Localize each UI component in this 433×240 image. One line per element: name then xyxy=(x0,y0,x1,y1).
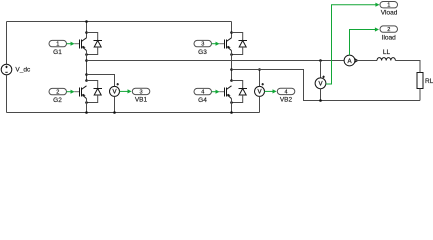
voltmeter Vload xyxy=(315,76,326,89)
wire bottom rail xyxy=(7,112,260,114)
svg-text:G1: G1 xyxy=(53,49,62,56)
wire VB2 top branch xyxy=(259,70,261,87)
wire D1 bottom branch xyxy=(87,47,98,55)
junction D4 anode branch xyxy=(230,79,233,82)
wire leg2 mid xyxy=(231,51,233,81)
wire D3 bottom branch xyxy=(232,47,243,55)
output port Iload xyxy=(380,26,398,32)
diode D3 xyxy=(239,41,248,48)
signal wire G3 xyxy=(212,42,220,46)
wire VB2 bottom branch xyxy=(259,96,261,112)
transistor IGBT3 xyxy=(219,38,231,51)
voltmeter VB2 xyxy=(255,83,265,96)
input port G3 xyxy=(194,40,212,46)
svg-text:G3: G3 xyxy=(198,49,207,56)
signal wire VB1 xyxy=(120,89,132,93)
wire VB1 bottom branch xyxy=(114,96,116,112)
resistor RL xyxy=(417,73,423,89)
wire left rail lower xyxy=(6,75,8,113)
dc source V_dc xyxy=(1,64,12,75)
signal wire G4 xyxy=(212,90,220,94)
wire D1 top branch xyxy=(87,33,98,41)
svg-text:4: 4 xyxy=(285,89,288,95)
junction D1 cathode branch xyxy=(85,53,88,56)
signal wire Vload xyxy=(326,3,380,84)
svg-text:G4: G4 xyxy=(198,97,207,104)
wire D4 top branch xyxy=(232,81,243,89)
svg-text:Iload: Iload xyxy=(382,35,396,42)
junction Vload top xyxy=(319,59,322,62)
signal wire VB2 xyxy=(265,89,277,93)
wire RL bottom xyxy=(419,89,421,101)
input port G2 xyxy=(49,88,67,94)
wire Vload minus branch xyxy=(320,89,322,101)
output port Vload xyxy=(380,2,398,8)
wire load return xyxy=(232,70,421,101)
ammeter Iload xyxy=(344,55,359,66)
junction leg2 load node xyxy=(230,68,233,71)
svg-text:1: 1 xyxy=(387,3,390,9)
diode D4 xyxy=(239,89,248,96)
input port G1 xyxy=(49,40,67,46)
signal wire G2 xyxy=(67,90,75,94)
svg-text:1: 1 xyxy=(56,42,59,48)
svg-text:LL: LL xyxy=(383,49,391,56)
svg-text:RL: RL xyxy=(425,78,433,85)
wire top rail xyxy=(7,21,232,23)
svg-text:G2: G2 xyxy=(53,97,62,104)
diode D2 xyxy=(94,89,103,96)
wire D4 bottom branch xyxy=(232,95,243,103)
output port VB2 xyxy=(277,88,295,94)
input port G4 xyxy=(194,88,212,94)
inductor LL xyxy=(377,58,395,61)
svg-text:3: 3 xyxy=(140,89,143,95)
wire D3 top branch xyxy=(232,33,243,41)
svg-text:2: 2 xyxy=(56,90,59,96)
svg-text:VB2: VB2 xyxy=(280,96,293,103)
output port VB1 xyxy=(132,88,150,94)
junction leg1 VB1 node xyxy=(85,73,88,76)
wire D2 bottom branch xyxy=(87,95,98,103)
svg-text:4: 4 xyxy=(201,90,204,96)
signal wire G1 xyxy=(67,42,75,46)
wire leg1 collector xyxy=(86,22,88,38)
junction D1 anode branch xyxy=(85,31,88,34)
wire D2 top branch xyxy=(87,81,98,89)
wire leg2 emitter to rail xyxy=(231,99,233,113)
wire leg2 collector xyxy=(231,22,233,38)
diode D1 xyxy=(94,41,103,48)
junction D2 anode branch xyxy=(85,79,88,82)
junction VB2 load wire xyxy=(258,68,261,71)
wire leg1 mid xyxy=(86,51,88,81)
wire VB1 top branch xyxy=(87,75,115,87)
transistor IGBT4 xyxy=(219,86,231,99)
junction D3 cathode branch xyxy=(230,53,233,56)
transistor IGBT2 xyxy=(74,86,86,99)
voltmeter VB1 xyxy=(110,83,120,96)
wire leg1 emitter to rail xyxy=(86,99,88,113)
transistor IGBT1 xyxy=(74,38,86,51)
svg-text:2: 2 xyxy=(387,27,390,33)
wire RL top xyxy=(395,61,420,73)
junction Vload bottom xyxy=(319,99,322,102)
wire left rail upper xyxy=(6,22,8,65)
svg-text:VB1: VB1 xyxy=(135,96,148,103)
svg-text:V_dc: V_dc xyxy=(15,67,31,74)
wire Vload plus branch xyxy=(320,61,322,78)
junction D2 cathode branch xyxy=(85,101,88,104)
wire ammeter to inductor xyxy=(355,60,377,62)
signal wire Iload xyxy=(350,27,380,55)
junction D3 anode branch xyxy=(230,31,233,34)
junction leg1 bottom rail xyxy=(85,111,88,114)
junction leg2 bottom rail xyxy=(230,111,233,114)
svg-text:3: 3 xyxy=(201,42,204,48)
svg-text:Vload: Vload xyxy=(381,10,398,17)
wire load top xyxy=(87,60,345,62)
junction VB1 bottom rail xyxy=(113,111,116,114)
junction leg1 top rail xyxy=(85,20,88,23)
junction D4 cathode branch xyxy=(230,101,233,104)
junction leg1 load node xyxy=(85,59,88,62)
